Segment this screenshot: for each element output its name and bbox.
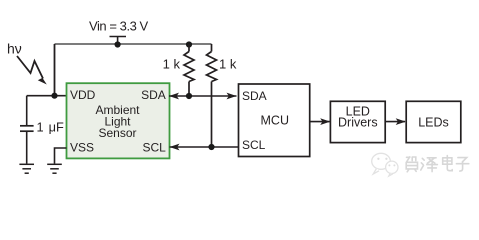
MCU U2 bbox=[239, 84, 310, 157]
贸 bbox=[406, 157, 417, 172]
watermark text 贸泽电子 bbox=[406, 156, 469, 172]
net SCL wire bbox=[170, 146, 239, 148]
svg-text:1 μF: 1 μF bbox=[37, 120, 65, 135]
supply rail Vin bbox=[55, 43, 212, 45]
svg-text:1 k: 1 k bbox=[219, 57, 237, 72]
svg-text:Drivers: Drivers bbox=[338, 116, 378, 130]
泽 bbox=[421, 158, 438, 172]
wire MCU to LED Drivers bbox=[310, 121, 330, 123]
svg-text:VSS: VSS bbox=[70, 141, 94, 155]
junction (R1 top on rail) bbox=[186, 41, 192, 47]
resistor R2 bbox=[207, 44, 217, 147]
svg-text:LEDs: LEDs bbox=[418, 116, 449, 130]
junction (R2/SCL) bbox=[208, 144, 214, 150]
svg-text:Vin = 3.3 V: Vin = 3.3 V bbox=[89, 19, 149, 34]
watermark logo (wechat bubbles) bbox=[372, 153, 398, 176]
LEDs block bbox=[406, 101, 461, 142]
power tap bar bbox=[110, 37, 127, 45]
svg-text:SCL: SCL bbox=[142, 141, 166, 155]
wire (rail down to VDD node) bbox=[54, 44, 56, 96]
ground (capacitor) bbox=[19, 164, 34, 173]
label Ambient Light Sensor bbox=[95, 103, 140, 140]
svg-text:VDD: VDD bbox=[70, 88, 96, 102]
wire (VDD node horizontal) bbox=[27, 95, 67, 97]
arrowhead SDA into MCU bbox=[227, 93, 237, 100]
svg-text:SDA: SDA bbox=[242, 89, 267, 103]
junction (Vin tap on rail) bbox=[115, 41, 121, 47]
resistor R1 bbox=[184, 44, 194, 96]
svg-text:SCL: SCL bbox=[242, 138, 266, 152]
arrowhead into LEDs bbox=[396, 118, 406, 125]
svg-text:MCU: MCU bbox=[261, 114, 289, 128]
arrowhead SCL into sensor bbox=[170, 144, 180, 151]
LED Drivers block bbox=[330, 101, 385, 142]
ambient light sensor U1 bbox=[67, 83, 170, 158]
arrowhead SDA into sensor bbox=[169, 93, 179, 100]
svg-text:hν: hν bbox=[7, 41, 22, 57]
arrowhead into LED Drivers bbox=[320, 118, 330, 125]
svg-text:Sensor: Sensor bbox=[98, 126, 136, 140]
子 bbox=[456, 158, 468, 171]
junction (VDD node) bbox=[51, 93, 57, 99]
ground (VSS) bbox=[47, 164, 62, 173]
label LED Drivers bbox=[338, 104, 378, 129]
svg-text:1 k: 1 k bbox=[163, 57, 181, 72]
wire VSS to ground bbox=[55, 148, 67, 164]
light arrow bbox=[17, 56, 47, 85]
wire LED Drivers to LEDs bbox=[385, 121, 405, 123]
svg-text:SDA: SDA bbox=[141, 88, 166, 102]
capacitor C1 bbox=[20, 96, 34, 164]
电 bbox=[443, 156, 452, 171]
junction (R1/SDA) bbox=[186, 93, 192, 99]
net SDA wire bbox=[169, 95, 237, 97]
